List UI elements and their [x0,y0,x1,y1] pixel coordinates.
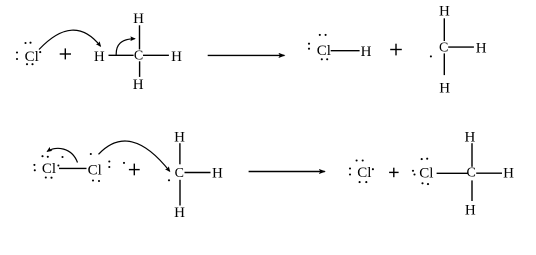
lone pair dots below Cl of chloromethane [421,182,429,185]
bond H-C (methane left bond, row 1) [109,54,134,56]
bond C-H right (methane, row 1) [143,54,169,56]
lone pair dots left of Cl radical product [349,167,351,175]
svg-text:Cl: Cl [25,49,39,65]
svg-text:Cl: Cl [317,43,331,59]
svg-text:H: H [439,81,450,97]
plus sign 2 (row 1 right) [390,44,402,56]
plus sign 1 (row 1 left) [60,48,71,59]
lone pair dots right of right Cl of Cl2 [108,160,110,168]
lone pair dots below left Cl of Cl2 [45,176,53,178]
lone pair dot above right Cl of Cl2 [90,153,92,155]
bond C-H top (methyl radical, row 1) [443,18,445,41]
svg-text:H: H [133,77,144,93]
lone pair dots left of Cl of HCl [308,43,310,50]
curved arrow from Cl radical to H atom (row 1) [39,30,101,49]
bond Cl-Cl (row 2) [59,167,87,169]
lone pair dots above Cl of HCl [319,34,327,36]
radical electron dot (methyl radical, row 2) [168,179,170,181]
bond C-H right (methyl radical, row 1) [448,46,474,48]
svg-text:H: H [174,205,185,221]
svg-text:Cl: Cl [42,161,56,177]
bond C-H bottom (methyl radical, row 2) [179,180,181,206]
bond C-H right (chloromethane, row 2) [476,172,502,174]
stray dot right of Cl2 molecule [123,162,125,164]
bond C-H bottom (methane, row 1) [139,61,141,77]
curved arrow from H-C bond to carbon (row 1) [116,39,135,55]
svg-text:H: H [464,129,475,145]
svg-text:C: C [439,41,448,56]
lone pair dots below right Cl of Cl2 [92,179,100,182]
bond Cl-C (chloromethane, row 2) [437,172,468,174]
reaction arrow (row 2) [249,171,325,173]
svg-text:Cl: Cl [88,162,102,178]
lone pair dots below Cl radical product [359,181,368,183]
bond C-H right (methyl radical, row 2) [185,172,211,174]
svg-text:H: H [439,4,450,20]
lone pair dots above Cl of chloromethane [421,158,429,161]
svg-text:H: H [476,41,487,57]
svg-text:C: C [134,49,143,64]
lone pair dots above left Cl of Cl2 [41,155,48,158]
svg-text:Cl: Cl [419,166,433,182]
curved arrow from Cl-Cl bond onto left Cl (row 2) [47,148,77,162]
bond C-H top (methyl radical, row 2) [179,143,181,164]
svg-text:C: C [175,166,184,181]
bond Cl-H (HCl, row 1) [331,50,360,52]
lone pair dots left of Cl radical row 1 [16,51,18,60]
lone pair dots above Cl radical row 1 [24,42,31,44]
lone pair dots below Cl radical row 1 [26,63,34,65]
bond C-H top (methane, row 1) [139,25,141,49]
bonding pair dot left of Cl-Cl bond [57,164,59,166]
lone pair dots below Cl of HCl [321,58,329,60]
lone pair dots above Cl radical product [356,159,364,161]
svg-text:H: H [361,44,372,60]
curved arrow from Cl2 to methyl radical carbon (row 2) [99,141,170,171]
svg-text:Cl: Cl [357,165,371,181]
reaction arrow (row 1) [208,54,285,56]
bond C-H top (chloromethane, row 2) [471,143,473,167]
lone pair dots left of Cl of chloromethane [412,170,416,176]
stray dot above Cl-Cl bond [61,156,63,158]
svg-text:H: H [465,203,476,219]
plus sign 4 (row 2 right) [389,168,399,178]
bond C-H bottom (methyl radical, row 1) [443,53,445,75]
bond C-H bottom (chloromethane, row 2) [471,180,473,201]
svg-text:H: H [503,166,514,182]
svg-text:H: H [212,166,223,182]
svg-text:H: H [94,49,105,65]
lone pair dots left of left Cl of Cl2 [33,164,35,172]
plus sign 3 (row 2 left) [129,164,140,176]
svg-text:H: H [174,129,185,145]
svg-text:C: C [467,166,476,181]
svg-text:H: H [133,11,144,27]
radical electron dot (methyl radical, row 1) [430,55,432,57]
radical electron dot right of Cl product [372,168,374,170]
svg-text:H: H [171,49,182,65]
radical electron dot right of Cl row 1 [39,51,41,53]
